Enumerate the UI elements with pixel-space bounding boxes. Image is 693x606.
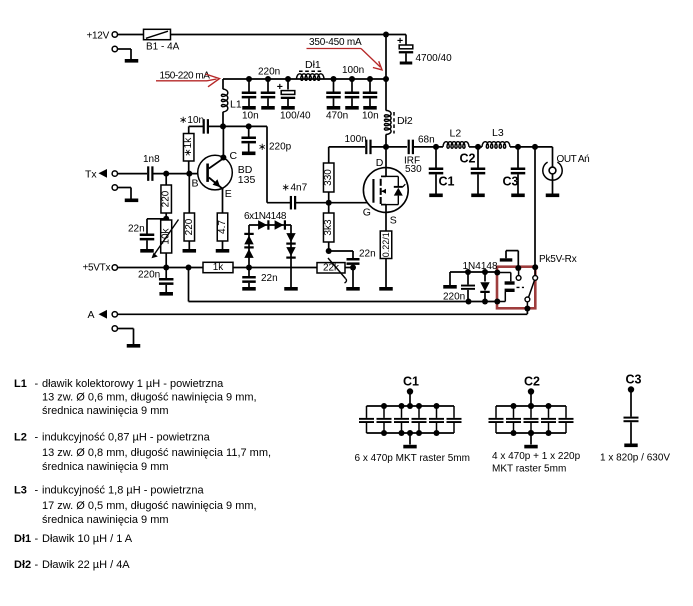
svg-text:3k3: 3k3 [323, 219, 334, 236]
svg-text:C: C [230, 150, 238, 162]
svg-text:-: - [35, 533, 39, 545]
svg-text:13 zw. Ø 0,8 mm, długość nawin: 13 zw. Ø 0,8 mm, długość nawinięcia 11,7… [42, 447, 271, 459]
svg-text:4 x 470p + 1 x 220p: 4 x 470p + 1 x 220p [492, 451, 581, 462]
svg-text:∗1k: ∗1k [183, 137, 194, 157]
svg-text:Tx: Tx [85, 169, 97, 181]
svg-text:150-220 mA: 150-220 mA [160, 71, 211, 82]
svg-text:350-450 mA: 350-450 mA [309, 37, 362, 48]
svg-text:E: E [225, 188, 232, 200]
svg-text:C1: C1 [403, 375, 419, 389]
svg-text:4n7: 4n7 [291, 183, 308, 194]
svg-text:indukcyjność 0,87 µH - powietr: indukcyjność 0,87 µH - powietrzna [42, 432, 211, 444]
svg-text:220n: 220n [443, 291, 465, 302]
svg-text:Dł1: Dł1 [305, 59, 321, 71]
svg-text:L3: L3 [14, 485, 27, 497]
svg-text:220p: 220p [269, 141, 292, 152]
svg-text:-: - [35, 432, 39, 444]
svg-text:C3: C3 [626, 372, 642, 386]
svg-text:-: - [35, 485, 39, 497]
svg-text:100n: 100n [345, 134, 367, 145]
svg-text:220: 220 [161, 190, 172, 207]
svg-text:1k: 1k [213, 262, 225, 273]
svg-text:C3: C3 [503, 174, 519, 188]
svg-text:530: 530 [405, 164, 422, 175]
svg-text:G: G [363, 206, 371, 218]
svg-text:4.7: 4.7 [217, 220, 228, 234]
svg-text:A: A [88, 309, 95, 321]
svg-text:17 zw. Ø 0,5 mm, długość nawin: 17 zw. Ø 0,5 mm, długość nawinięcia 9 mm… [42, 500, 257, 512]
svg-text:1 x 820p / 630V: 1 x 820p / 630V [600, 452, 670, 463]
svg-text:dławik kolektorowy 1 µH - powi: dławik kolektorowy 1 µH - powietrzna [42, 378, 224, 390]
svg-text:135: 135 [238, 174, 256, 186]
svg-text:Dł2: Dł2 [397, 115, 413, 127]
svg-text:22n: 22n [128, 224, 145, 235]
svg-text:C2: C2 [524, 375, 540, 389]
svg-text:-: - [35, 559, 39, 571]
svg-text:22n: 22n [261, 273, 278, 284]
svg-text:średnica nawinięcia 9 mm: średnica nawinięcia 9 mm [42, 514, 169, 526]
svg-text:-: - [35, 378, 39, 390]
svg-text:68n: 68n [418, 134, 435, 145]
svg-text:∗: ∗ [258, 142, 266, 153]
svg-text:Dł2: Dł2 [14, 559, 31, 571]
svg-text:Dł1: Dł1 [14, 533, 31, 545]
svg-text:C2: C2 [460, 151, 476, 165]
svg-text:0.22/1: 0.22/1 [381, 232, 391, 257]
svg-text:100/40: 100/40 [280, 111, 311, 122]
svg-text:220n: 220n [138, 269, 160, 280]
svg-text:+12V: +12V [87, 31, 110, 42]
svg-text:330: 330 [323, 169, 334, 186]
svg-text:S: S [390, 214, 397, 226]
svg-text:1n8: 1n8 [143, 154, 160, 165]
svg-text:6 x 470p MKT raster 5mm: 6 x 470p MKT raster 5mm [355, 453, 470, 464]
svg-text:L3: L3 [492, 127, 504, 139]
svg-text:średnica nawinięcia 9 mm: średnica nawinięcia 9 mm [42, 461, 169, 473]
svg-text:indukcyjność 1,8 µH - powietrz: indukcyjność 1,8 µH - powietrzna [42, 485, 205, 497]
svg-text:∗: ∗ [282, 183, 290, 194]
svg-text:470n: 470n [326, 111, 348, 122]
svg-text:L2: L2 [14, 432, 27, 444]
svg-text:L1: L1 [230, 99, 242, 111]
svg-text:B: B [192, 177, 199, 189]
svg-text:220: 220 [184, 218, 195, 235]
svg-text:6x1N4148: 6x1N4148 [244, 211, 287, 222]
svg-text:L1: L1 [14, 378, 27, 390]
svg-text:Pk5V-Rx: Pk5V-Rx [539, 254, 577, 265]
svg-text:10n: 10n [362, 111, 379, 122]
svg-text:100n: 100n [342, 65, 364, 76]
svg-text:22n: 22n [359, 248, 376, 259]
svg-text:MKT raster 5mm: MKT raster 5mm [492, 464, 566, 475]
svg-text:L2: L2 [450, 127, 462, 139]
svg-text:C1: C1 [439, 174, 455, 188]
svg-text:22k: 22k [323, 262, 340, 273]
svg-text:B1 - 4A: B1 - 4A [146, 41, 180, 52]
svg-text:średnica nawinięcia 9 mm: średnica nawinięcia 9 mm [42, 405, 169, 417]
svg-text:13 zw. Ø 0,6 mm, długość nawin: 13 zw. Ø 0,6 mm, długość nawinięcia 9 mm… [42, 392, 257, 404]
svg-text:∗10n: ∗10n [179, 115, 204, 126]
svg-text:+5VTx: +5VTx [83, 262, 111, 273]
svg-text:D: D [376, 157, 384, 169]
svg-text:4700/40: 4700/40 [416, 53, 453, 64]
svg-text:OUT Ań: OUT Ań [557, 154, 590, 165]
svg-text:Dławik 22 µH / 4A: Dławik 22 µH / 4A [42, 559, 130, 571]
svg-text:220n: 220n [258, 67, 280, 78]
svg-text:10n: 10n [242, 111, 259, 122]
svg-text:Dławik 10 µH / 1 A: Dławik 10 µH / 1 A [42, 533, 133, 545]
